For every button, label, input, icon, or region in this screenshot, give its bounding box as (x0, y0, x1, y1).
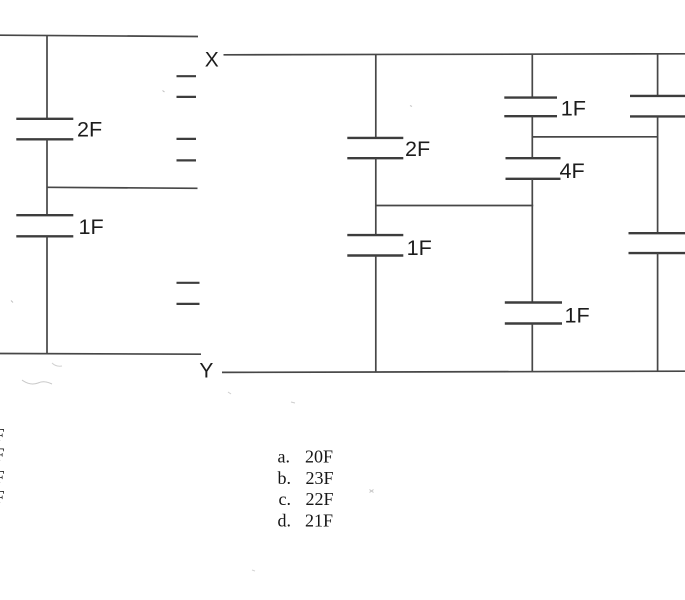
svg-text:22F: 22F (306, 489, 334, 509)
capacitor 1F (branch B top) (504, 98, 557, 117)
scan smudge under left bottom rail (22, 380, 52, 384)
wire: horizontal link branch A to branch B (376, 205, 533, 207)
svg-text:X: X (205, 49, 219, 72)
scan speck near options (370, 490, 374, 493)
wire: branch A vertical middle segment (375, 158, 377, 235)
wire: branch C vertical upper segment (657, 54, 659, 96)
svg-text:1F: 1F (561, 95, 586, 120)
capacitor 2F (branch A) (347, 138, 403, 158)
wire: branch B vertical between 1F and 4F (531, 116, 533, 158)
wire: left figure vertical branch upper segment (46, 36, 48, 119)
svg-text:1F: 1F (407, 235, 432, 260)
wire: branch C vertical lower segment (657, 253, 659, 371)
scan speck left margin (11, 301, 13, 303)
capacitor (left figure right branch, upper pair plates) (177, 76, 197, 97)
capacitor (branch C lower, cut by page edge) (629, 233, 685, 253)
capacitor (left figure right branch, lower pair plates) (177, 283, 200, 304)
wire: left figure vertical lower segment (46, 237, 48, 355)
wire: horizontal link branch B to branch C (532, 136, 657, 138)
svg-text:23F: 23F (306, 468, 334, 488)
svg-text:4F: 4F (560, 158, 585, 183)
capacitor 1F (branch B bottom) (505, 303, 562, 324)
wire: branch A vertical upper segment (375, 55, 377, 138)
wire: left figure vertical between 2F and 1F (46, 140, 48, 216)
svg-text:1F: 1F (565, 302, 590, 327)
wire: left figure top rail (0, 35, 198, 36)
scan speck near top middle (163, 91, 165, 93)
svg-text:F: F (0, 487, 5, 507)
svg-text:2F: 2F (77, 116, 102, 141)
wire: left figure bottom rail (0, 353, 201, 356)
wire: left figure middle rail (47, 187, 198, 188)
wire: bottom rail from node Y (222, 371, 685, 372)
svg-text:Y: Y (199, 360, 213, 383)
capacitor 1F (left figure) (16, 215, 73, 236)
svg-text:a.: a. (278, 447, 291, 467)
svg-text:F: F (0, 425, 5, 445)
capacitor (left figure right branch, second pair plates) (177, 139, 197, 161)
svg-text:F: F (0, 467, 5, 487)
svg-text:d.: d. (278, 510, 292, 530)
svg-text:b.: b. (278, 468, 292, 488)
scan speck above 2F branch A (410, 106, 412, 107)
scan speck mid page (252, 570, 255, 571)
capacitor 2F (left figure) (16, 119, 73, 140)
wire: branch B vertical lower segment (531, 324, 533, 372)
wire: branch B vertical middle segment (531, 179, 533, 302)
wire: branch C vertical middle segment (657, 117, 659, 234)
svg-text:2F: 2F (405, 136, 430, 161)
svg-text:20F: 20F (305, 447, 333, 467)
svg-text:1F: 1F (79, 214, 104, 239)
svg-text:c.: c. (279, 489, 292, 509)
wire: node X top rail (224, 54, 685, 55)
scan speck below Y (228, 392, 295, 403)
wire: branch B vertical upper segment (531, 55, 533, 98)
svg-text:21F: 21F (305, 510, 333, 530)
svg-text:F: F (0, 444, 5, 464)
capacitor (branch C top, cut by page edge) (630, 96, 685, 117)
capacitor 4F (branch B) (506, 158, 561, 179)
capacitor 1F (branch A) (347, 235, 403, 255)
wire: branch A vertical lower segment (375, 256, 377, 372)
